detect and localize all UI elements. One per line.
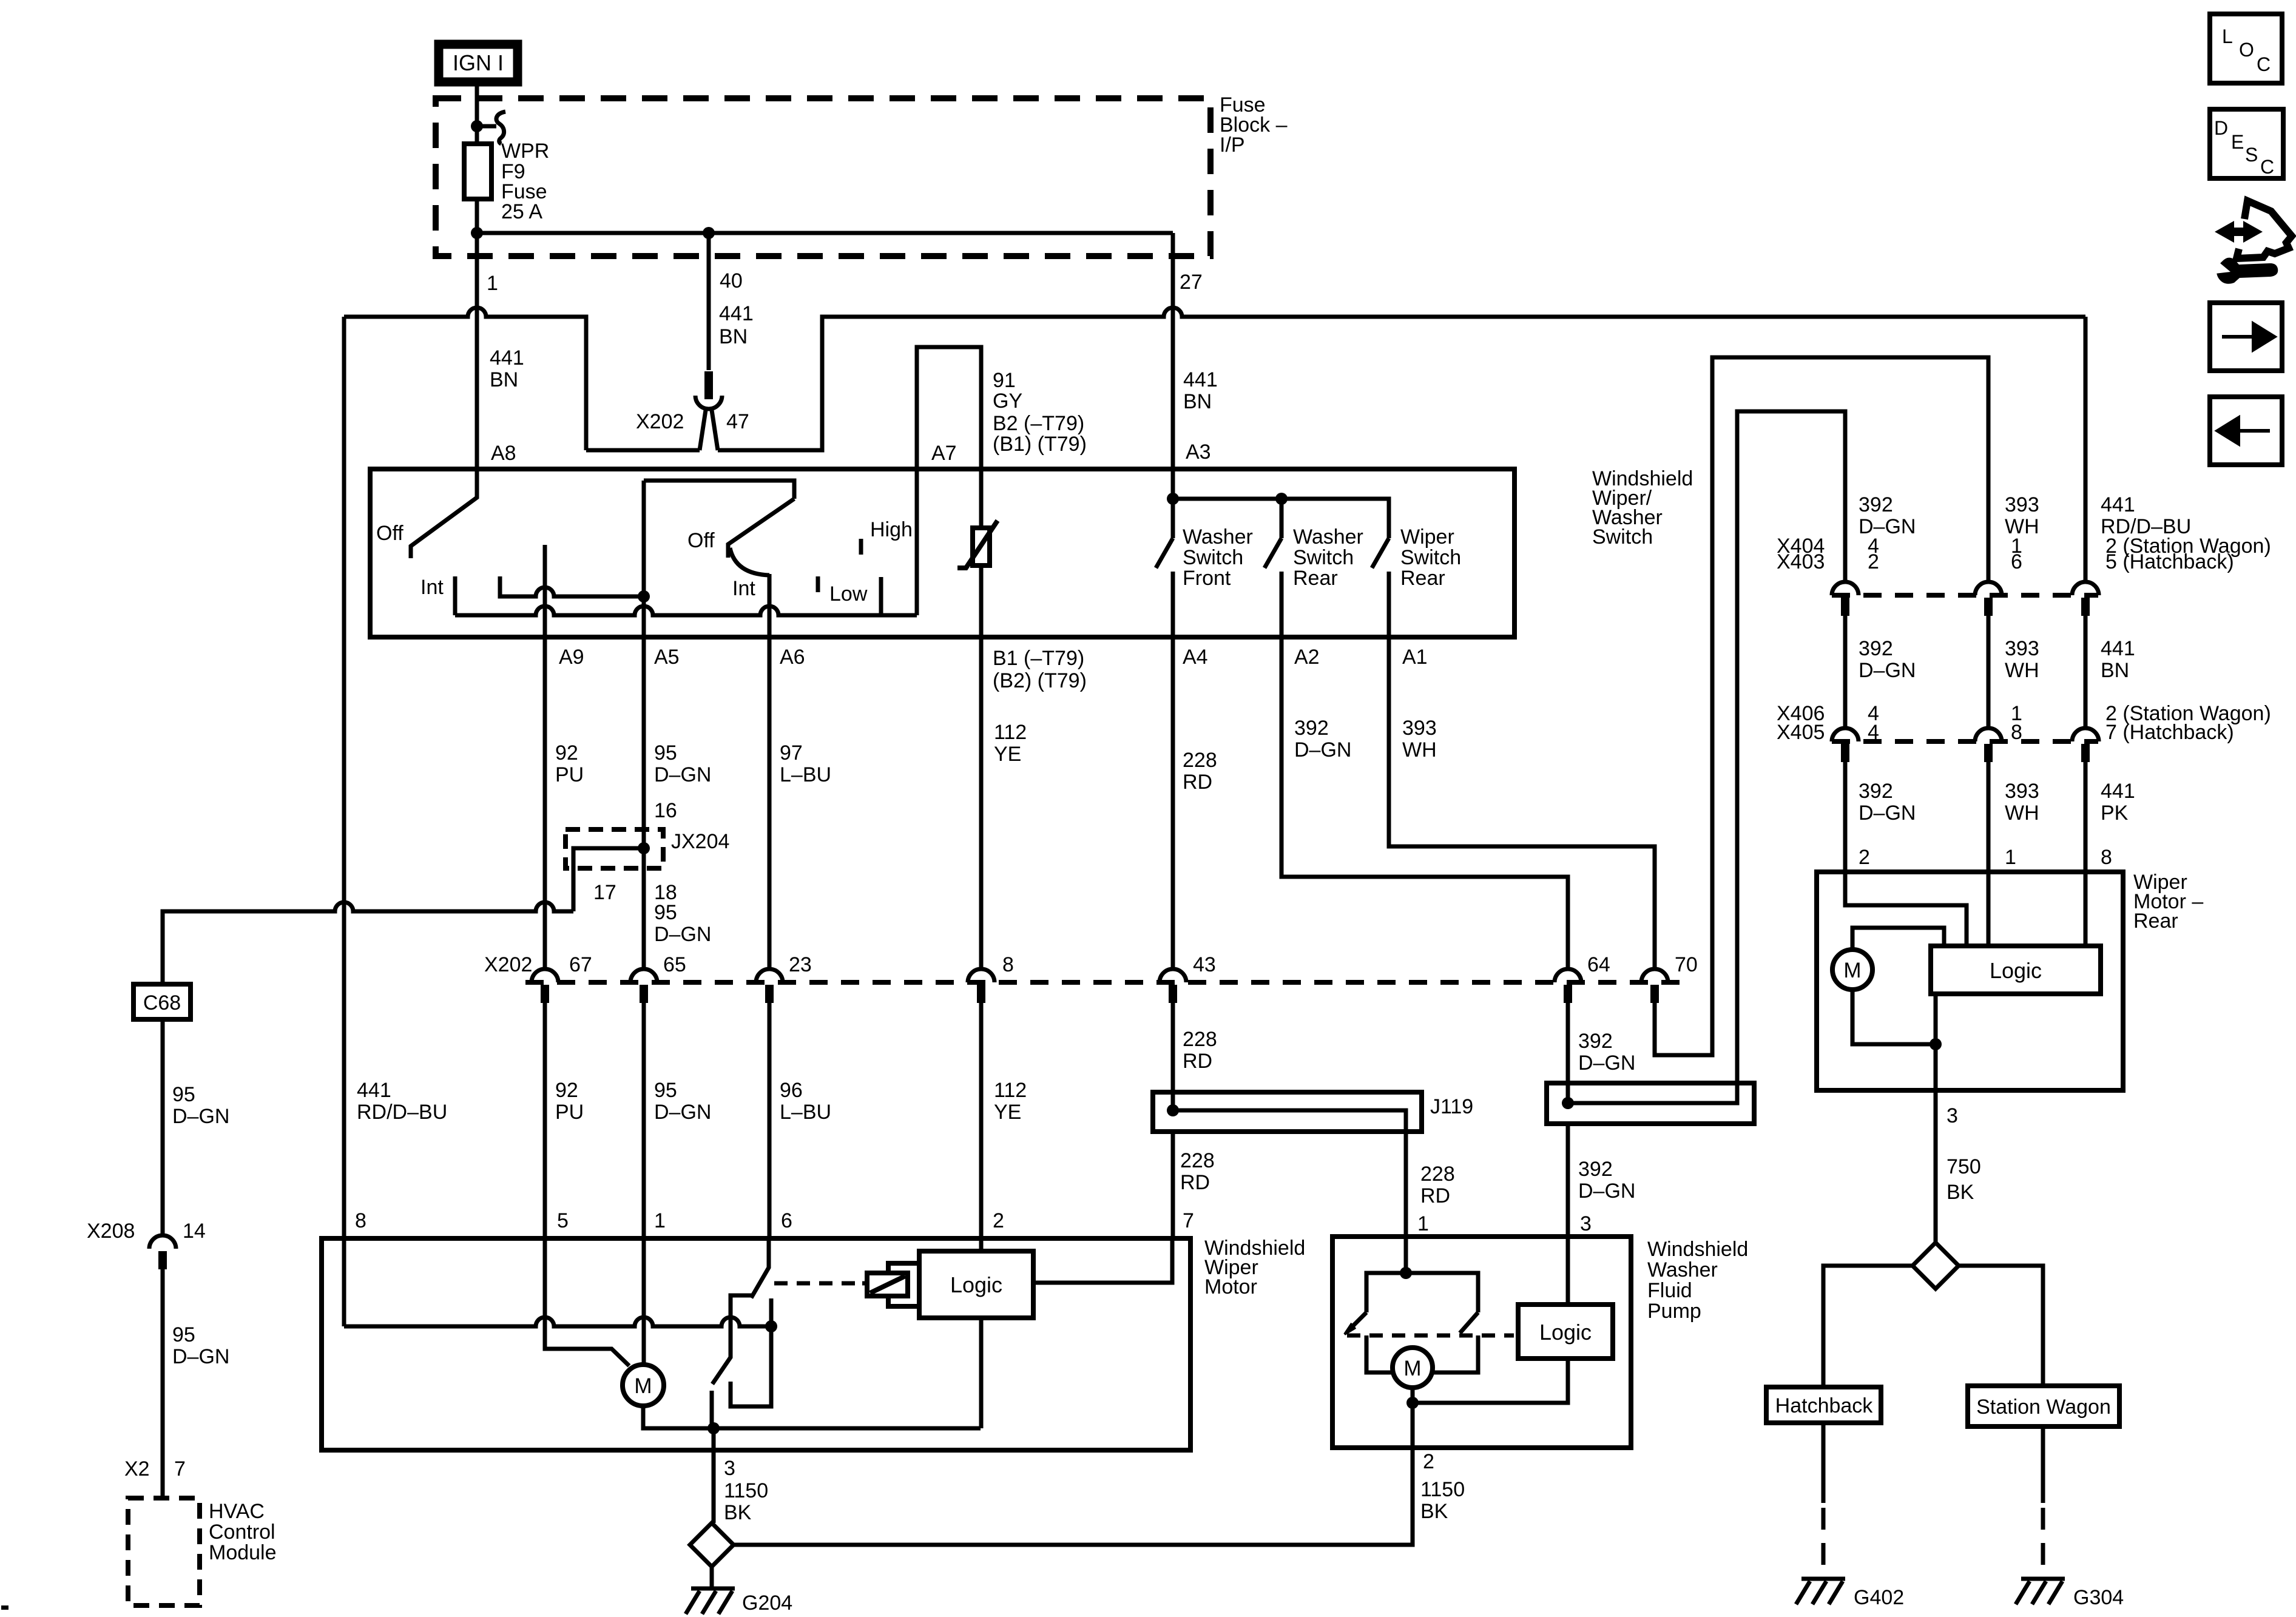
X405 pin 2/7	[2072, 728, 2099, 741]
svg-text:Module: Module	[209, 1541, 277, 1564]
svg-text:228: 228	[1183, 749, 1217, 772]
svg-text:D–GN: D–GN	[172, 1345, 229, 1368]
svg-text:441: 441	[2101, 780, 2135, 803]
rotary switch blade arc to A6	[730, 548, 769, 575]
svg-text:6: 6	[781, 1209, 792, 1232]
svg-text:Washer: Washer	[1183, 525, 1253, 549]
wire M top to logic	[1852, 928, 1944, 950]
svg-text:392: 392	[1294, 717, 1329, 740]
svg-text:Logic: Logic	[1539, 1320, 1592, 1345]
splice box right	[1547, 1083, 1754, 1124]
fuse WPR F9 25 A	[464, 144, 491, 199]
svg-text:A6: A6	[780, 646, 805, 669]
wire to Station Wagon	[1959, 1266, 2043, 1386]
wiper motor rear box	[1817, 872, 2123, 1090]
svg-text:WH: WH	[1402, 738, 1437, 761]
X202 pin 70	[1641, 969, 1668, 982]
svg-text:D–GN: D–GN	[172, 1105, 229, 1128]
pump M to pin 2	[1411, 1388, 1415, 1448]
svg-text:5: 5	[557, 1209, 569, 1232]
Int contact of left switch	[453, 576, 458, 615]
svg-text:6: 6	[2011, 550, 2022, 573]
svg-text:392: 392	[1578, 1030, 1613, 1053]
wire IGN I to fuse switch	[475, 82, 479, 144]
wire pin 8 to rear logic	[2084, 872, 2088, 946]
svg-text:393: 393	[2005, 493, 2039, 516]
svg-text:C68: C68	[143, 991, 181, 1014]
svg-text:441: 441	[719, 302, 754, 325]
connector X202 dashed line	[525, 980, 1693, 985]
svg-text:441: 441	[2101, 637, 2135, 660]
wire 95 D-GN JX204:17 to C68	[163, 902, 573, 984]
svg-text:392: 392	[1859, 780, 1893, 803]
wire 393 WH A1 jog to X202:70	[1389, 637, 1655, 969]
svg-text:C: C	[2260, 156, 2274, 178]
fuse block I/P dashed box	[436, 98, 1210, 256]
park switch NC contact	[731, 1298, 771, 1406]
option box Station Wagon	[1968, 1386, 2119, 1426]
motor M rear wiper	[1832, 950, 1872, 990]
svg-text:47: 47	[726, 410, 749, 433]
svg-text:393: 393	[1402, 717, 1437, 740]
wire 95 D-GN A5 to JX204:16	[642, 637, 646, 969]
svg-text:393: 393	[2005, 637, 2039, 660]
motor M washer pump	[1393, 1348, 1433, 1388]
svg-text:Fluid: Fluid	[1647, 1279, 1692, 1302]
svg-text:2: 2	[1859, 846, 1870, 869]
svg-text:L–BU: L–BU	[780, 1101, 831, 1124]
svg-text:Motor: Motor	[1204, 1275, 1257, 1298]
relay coil bracket	[888, 1263, 920, 1306]
svg-text:BN: BN	[490, 368, 518, 391]
svg-text:67: 67	[569, 953, 592, 976]
svg-text:WH: WH	[2005, 802, 2039, 825]
svg-text:64: 64	[1587, 953, 1610, 976]
connector X404/X403 dashed line	[1832, 593, 2098, 598]
wire 95 D-GN X208 to HVAC	[161, 1269, 165, 1498]
svg-text:1: 1	[1417, 1212, 1429, 1235]
svg-text:D–GN: D–GN	[1578, 1180, 1635, 1203]
wire 40 down to X202 pin 47	[707, 256, 711, 370]
svg-text:Switch: Switch	[1400, 546, 1461, 569]
svg-text:D–GN: D–GN	[1578, 1052, 1635, 1075]
wire 441 RD/D-BU down to X403	[2084, 317, 2088, 582]
svg-text:A3: A3	[1186, 441, 1211, 464]
X403 pin 4/2	[1832, 582, 1859, 595]
ground bus to washer pump	[734, 1448, 1413, 1545]
svg-text:E: E	[2231, 131, 2244, 153]
windshield wiper motor box	[322, 1238, 1190, 1450]
svg-text:S: S	[2245, 144, 2258, 166]
svg-text:Windshield: Windshield	[1647, 1238, 1748, 1261]
wire A5 inside switch	[642, 481, 646, 637]
svg-text:1: 1	[487, 272, 498, 295]
washer switch rear blade	[1264, 538, 1281, 568]
svg-text:G304: G304	[2073, 1586, 2124, 1609]
svg-text:D–GN: D–GN	[654, 1101, 711, 1124]
svg-text:5 (Hatchback): 5 (Hatchback)	[2105, 550, 2234, 573]
X403 pin 2/5	[2072, 582, 2099, 595]
svg-text:G204: G204	[742, 1592, 792, 1615]
svg-text:8: 8	[2011, 721, 2022, 744]
splice diamond G204 feed	[690, 1523, 734, 1567]
wire 392 D-GN X405 to rear motor pin 2	[1843, 762, 1848, 872]
svg-text:Washer: Washer	[1293, 525, 1363, 549]
pump feed split pin 1	[1404, 1237, 1408, 1273]
svg-text:RD: RD	[1183, 771, 1212, 794]
svg-text:Switch: Switch	[1183, 546, 1243, 569]
svg-text:(B1) (T79): (B1) (T79)	[993, 433, 1087, 456]
svg-text:YE: YE	[994, 1101, 1021, 1124]
wire to Hatchback	[1823, 1266, 1913, 1387]
wire 92 PU X202:67 to motor pin 5	[543, 1003, 547, 1238]
svg-text:393: 393	[2005, 780, 2039, 803]
ground G402	[1796, 1579, 1845, 1604]
icon service wrench with arrows	[2210, 201, 2292, 284]
svg-text:Rear: Rear	[1400, 567, 1445, 590]
icon LOC box	[2210, 14, 2282, 83]
wire A9 inside switch	[543, 545, 547, 637]
svg-text:M: M	[1843, 959, 1861, 982]
svg-text:2: 2	[1423, 1450, 1434, 1473]
logic box pump	[1518, 1305, 1613, 1359]
wire 392 D-GN X403 to X405	[1843, 616, 1848, 728]
svg-text:16: 16	[654, 799, 677, 822]
svg-text:97: 97	[780, 741, 803, 765]
X202 pin 64	[1555, 969, 1581, 982]
svg-text:Int: Int	[420, 576, 444, 599]
svg-text:Control: Control	[209, 1521, 275, 1544]
wire 92 PU A9 to X202:67	[543, 637, 547, 969]
svg-text:BK: BK	[724, 1501, 752, 1524]
svg-text:Logic: Logic	[950, 1272, 1002, 1297]
windshield wiper/washer switch box	[370, 469, 1514, 637]
wire 441 PK X405 to rear motor pin 8	[2084, 762, 2088, 872]
wire 1 down to A8	[475, 256, 479, 469]
svg-text:228: 228	[1183, 1028, 1217, 1051]
svg-text:8: 8	[2101, 846, 2112, 869]
wire pin 1 to motor M	[642, 1238, 646, 1365]
wire pin 2 jog to rear logic	[1845, 872, 1967, 946]
logic bottom stub	[979, 1318, 984, 1428]
svg-text:JX204: JX204	[671, 830, 729, 853]
wire A7 internal down to rail	[915, 469, 919, 615]
svg-text:Switch: Switch	[1293, 546, 1354, 569]
svg-text:3: 3	[724, 1457, 735, 1480]
svg-text:4: 4	[1868, 721, 1879, 744]
svg-text:A9: A9	[559, 646, 584, 669]
dashed actuator link pump	[1347, 1334, 1514, 1338]
svg-text:A2: A2	[1294, 646, 1320, 669]
svg-text:Pump: Pump	[1647, 1300, 1701, 1323]
pin 1 of fuse block	[475, 233, 479, 256]
wiper switch rear contact	[1387, 572, 1391, 637]
logic box rear motor	[1931, 946, 2101, 994]
wire 392 D-GN from X202:64 through splice	[1566, 1003, 1570, 1103]
X403 pin 1/6	[1975, 582, 2002, 595]
X202 pin 65	[630, 969, 657, 982]
relay coil	[867, 1273, 908, 1296]
svg-text:7: 7	[1183, 1209, 1194, 1232]
junction JX204 dashed box	[566, 829, 663, 868]
thermistor wire B2 to B1	[979, 469, 984, 637]
wire 393 WH X405 to rear motor pin 1	[1987, 762, 1991, 872]
svg-text:High: High	[870, 518, 913, 541]
svg-text:BN: BN	[2101, 659, 2129, 682]
svg-text:BN: BN	[1183, 390, 1212, 413]
svg-text:C: C	[2257, 53, 2271, 75]
svg-text:70: 70	[1675, 953, 1698, 976]
wire 27 down to A3	[1171, 256, 1175, 469]
svg-text:Rear: Rear	[2133, 910, 2178, 933]
svg-text:441: 441	[1183, 368, 1218, 391]
svg-text:D–GN: D–GN	[654, 923, 711, 946]
svg-text:750: 750	[1947, 1155, 1981, 1178]
svg-text:BK: BK	[1420, 1500, 1448, 1523]
connector C68	[133, 984, 191, 1019]
svg-text:95: 95	[172, 1083, 195, 1106]
icon DESC box	[2210, 109, 2283, 178]
svg-text:J119: J119	[1430, 1095, 1473, 1118]
svg-text:A4: A4	[1183, 646, 1208, 669]
svg-text:1150: 1150	[724, 1479, 768, 1502]
rotary Int contact stub	[879, 577, 883, 615]
wire A6 inside switch	[768, 574, 772, 637]
JX204 internal jumper	[638, 842, 650, 854]
jumper loop A7 to B2 over switch box	[917, 347, 981, 469]
svg-text:Station Wagon: Station Wagon	[1976, 1396, 2111, 1419]
svg-text:(B2) (T79): (B2) (T79)	[993, 669, 1087, 692]
wire 228 RD A4 to X202:43	[1171, 637, 1175, 969]
svg-text:392: 392	[1578, 1158, 1613, 1181]
wire 441 RD/D-BU left vertical	[342, 317, 346, 1326]
svg-text:441: 441	[357, 1079, 391, 1102]
svg-text:17: 17	[593, 881, 616, 904]
svg-text:D–GN: D–GN	[1859, 802, 1916, 825]
X202 pin 67	[532, 969, 558, 982]
svg-text:X202: X202	[484, 953, 532, 976]
connector X208 pin 14	[149, 1235, 176, 1249]
svg-text:I/P: I/P	[1220, 133, 1245, 157]
wire 228 RD X202:43 to J119	[1171, 1003, 1175, 1110]
wire 392 D-GN splice up to X403	[1737, 411, 1845, 1083]
svg-text:228: 228	[1420, 1163, 1455, 1186]
wire pin 2 to logic	[979, 1238, 984, 1251]
wire 441 BN X403 to X405	[2084, 616, 2088, 728]
svg-text:441: 441	[490, 346, 524, 370]
svg-text:14: 14	[183, 1220, 206, 1243]
svg-text:Low: Low	[829, 582, 868, 606]
fuse output bus in fuse block	[477, 231, 1173, 235]
ground G304	[2016, 1579, 2065, 1604]
svg-text:112: 112	[994, 1079, 1027, 1102]
svg-text:1150: 1150	[1420, 1478, 1465, 1501]
svg-text:40: 40	[720, 269, 743, 292]
wiper switch blade from A8	[411, 469, 477, 558]
svg-text:441: 441	[2101, 493, 2135, 516]
wire pin 5 to motor M	[545, 1238, 629, 1366]
washer switch front contact	[1171, 572, 1175, 637]
ground G204	[686, 1588, 735, 1614]
svg-text:PK: PK	[2101, 802, 2129, 825]
svg-text:43: 43	[1193, 953, 1216, 976]
wire 95 D-GN X202:65 to motor pin 1	[642, 1003, 646, 1238]
svg-text:BN: BN	[719, 325, 748, 348]
power feed IGN I box	[439, 44, 518, 82]
motor feed rail from pin 8	[344, 1317, 771, 1326]
wire Hatchback to G402	[1822, 1423, 1826, 1503]
svg-text:M: M	[1403, 1357, 1421, 1380]
wire 112 YE X202:8 to motor pin 2	[979, 1003, 984, 1238]
switch symbol in fuse block	[496, 112, 505, 144]
X405 pin 1/8	[1975, 728, 2002, 741]
svg-text:1: 1	[654, 1209, 666, 1232]
pin 27 of fuse block	[1171, 233, 1175, 256]
svg-text:PU: PU	[555, 763, 584, 786]
wire 392 D-GN to pump logic	[1566, 1124, 1570, 1305]
wire M bottom to logic and pin 3	[1852, 990, 1936, 1044]
svg-text:HVAC: HVAC	[209, 1500, 265, 1523]
svg-text:M: M	[634, 1374, 652, 1398]
svg-text:A5: A5	[654, 646, 680, 669]
svg-text:RD: RD	[1183, 1050, 1212, 1073]
park switch ground contact	[710, 1391, 714, 1428]
svg-text:392: 392	[1859, 637, 1893, 660]
svg-text:Front: Front	[1183, 567, 1231, 590]
svg-text:Rear: Rear	[1293, 567, 1338, 590]
wire 97 L-BU A6 to X202:23	[768, 637, 772, 969]
pump blade right	[1460, 1312, 1478, 1333]
wiper switch rear blade	[1372, 538, 1389, 568]
wire diamond to ground G204	[710, 1567, 714, 1588]
Int feed rail to A7	[455, 606, 917, 615]
svg-text:95: 95	[654, 1079, 677, 1102]
wire 228 RD J119 to motor pin 7	[1171, 1132, 1175, 1238]
motor M front wiper	[623, 1365, 664, 1406]
X405 pin 4/4	[1832, 728, 1859, 741]
washer feed from A3	[1171, 469, 1175, 538]
park switch blade from pin 6	[751, 1238, 769, 1298]
svg-text:L–BU: L–BU	[780, 763, 831, 786]
wire Station Wagon to G304	[2041, 1426, 2045, 1503]
svg-text:RD: RD	[1420, 1184, 1450, 1207]
svg-text:25 A: 25 A	[501, 200, 542, 223]
svg-text:X208: X208	[87, 1220, 135, 1243]
svg-text:Off: Off	[376, 522, 403, 545]
wire 393 WH X403 to X405	[1987, 616, 1991, 728]
splice diamond rear ground	[1913, 1243, 1959, 1289]
svg-text:PU: PU	[555, 1101, 584, 1124]
svg-text:Logic: Logic	[1990, 958, 2042, 983]
svg-text:65: 65	[663, 953, 686, 976]
pin 40 of fuse block	[707, 233, 711, 256]
svg-text:D–GN: D–GN	[1294, 738, 1351, 761]
dashed actuator link	[774, 1281, 862, 1286]
svg-text:7: 7	[174, 1457, 186, 1480]
washer switch rear contact	[1280, 572, 1284, 637]
svg-text:92: 92	[555, 1079, 578, 1102]
svg-text:Washer: Washer	[1647, 1258, 1718, 1281]
svg-text:8: 8	[1002, 953, 1014, 976]
icon arrow right box	[2210, 303, 2282, 371]
svg-text:WPR: WPR	[501, 140, 549, 163]
svg-text:95: 95	[654, 901, 677, 924]
windshield washer fluid pump box	[1332, 1237, 1631, 1448]
svg-text:1: 1	[2005, 846, 2016, 869]
svg-text:Off: Off	[687, 529, 715, 552]
svg-text:X405: X405	[1777, 721, 1825, 744]
svg-text:RD: RD	[1180, 1171, 1210, 1194]
rotary switch blade	[728, 499, 794, 558]
svg-text:2: 2	[993, 1209, 1004, 1232]
svg-text:YE: YE	[994, 743, 1021, 766]
svg-text:D–GN: D–GN	[654, 763, 711, 786]
thermistor symbol	[973, 528, 990, 565]
svg-text:BK: BK	[1947, 1181, 1974, 1204]
pump blade left with arrow	[1348, 1312, 1366, 1331]
svg-text:228: 228	[1180, 1149, 1215, 1172]
wire 393 WH X202:70 to X403	[1655, 357, 1988, 1055]
page mark	[1, 1605, 8, 1610]
svg-text:A7: A7	[931, 442, 957, 465]
wire logic to pin 7	[1033, 1238, 1172, 1283]
svg-text:O: O	[2239, 39, 2254, 61]
svg-text:RD/D–BU: RD/D–BU	[357, 1101, 447, 1124]
svg-text:23: 23	[789, 953, 812, 976]
icon arrow left box	[2210, 397, 2282, 465]
svg-text:Switch: Switch	[1592, 525, 1653, 549]
svg-text:GY: GY	[993, 390, 1022, 413]
X202 pin 23	[756, 969, 783, 982]
HVAC control module dashed box	[128, 1498, 200, 1605]
svg-text:X202: X202	[636, 410, 684, 433]
park switch moving contact	[712, 1295, 752, 1384]
pump contacts to motor	[1366, 1335, 1478, 1372]
svg-text:392: 392	[1859, 493, 1893, 516]
motor M to ground rail	[643, 1406, 981, 1428]
svg-text:7 (Hatchback): 7 (Hatchback)	[2105, 721, 2234, 744]
svg-text:A1: A1	[1402, 646, 1428, 669]
svg-text:Int: Int	[732, 577, 755, 600]
logic box wiper motor	[919, 1251, 1033, 1318]
rotary switch top link A5	[644, 481, 794, 499]
splice J119	[1153, 1092, 1422, 1132]
option box Hatchback	[1766, 1387, 1881, 1423]
wire 228 RD J119 to pump pin 1	[1404, 1132, 1408, 1237]
svg-text:D: D	[2214, 117, 2228, 139]
svg-text:D–GN: D–GN	[1859, 659, 1916, 682]
svg-text:B2 (–T79): B2 (–T79)	[993, 412, 1084, 435]
svg-text:A8: A8	[491, 442, 516, 465]
svg-text:91: 91	[993, 369, 1016, 392]
X202 pin 8	[968, 969, 994, 982]
wire pin 1 to rear logic	[1987, 872, 1991, 946]
svg-text:Wiper: Wiper	[1400, 525, 1454, 549]
svg-text:G402: G402	[1854, 1586, 1904, 1609]
svg-text:X403: X403	[1777, 550, 1825, 573]
wire 95 D-GN C68 to X208	[161, 1019, 165, 1235]
wire 112 YE B1 to X202:8	[979, 637, 984, 969]
svg-text:95: 95	[654, 741, 677, 765]
connector X202 pin 47	[704, 371, 713, 399]
wire 441 BN loop from pin 40 to bus 522	[586, 308, 2085, 450]
wire 750 BK rear motor pin 3	[1934, 1044, 1938, 1243]
svg-text:95: 95	[172, 1323, 195, 1346]
High contact tick	[859, 539, 863, 555]
wire 392 D-GN A2 jog to X202:64	[1281, 637, 1568, 969]
wire fuse to bus	[475, 199, 479, 233]
svg-text:IGN I: IGN I	[453, 50, 504, 75]
